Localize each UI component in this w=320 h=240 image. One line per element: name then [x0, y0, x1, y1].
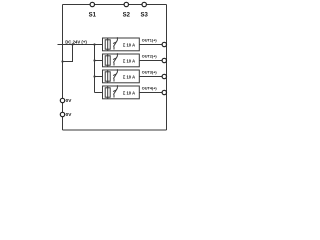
junction dot DC wire — [71, 43, 73, 45]
wire bottom — [63, 129, 167, 131]
svg-text:Σ 10 A: Σ 10 A — [123, 42, 135, 47]
terminal OUT4 — [162, 90, 166, 94]
terminal OUT3 — [162, 74, 166, 78]
svg-text:OUT1(+): OUT1(+) — [142, 38, 158, 42]
fuse F3 — [107, 70, 109, 83]
terminal 0V b — [60, 112, 64, 116]
wire vertical feed bus — [94, 45, 96, 93]
svg-text:S3: S3 — [141, 13, 149, 19]
channel block CH1 — [103, 37, 140, 51]
channel block CH2 — [103, 53, 140, 67]
junction dot bus top — [93, 43, 95, 45]
wire feed row2 — [95, 60, 103, 62]
svg-text:OUT4(+): OUT4(+) — [142, 86, 158, 90]
wire output row2 — [139, 60, 162, 62]
wire right rail — [166, 5, 168, 131]
svg-text:Σ 10 A: Σ 10 A — [123, 90, 135, 95]
wire top bus — [63, 4, 167, 6]
switch S CH2 — [116, 53, 118, 56]
svg-text:S1: S1 — [89, 13, 97, 19]
terminal 0V a — [60, 98, 64, 102]
junction dot bus row3 — [93, 75, 95, 77]
terminal S2 — [124, 2, 128, 6]
svg-text:S2: S2 — [123, 13, 131, 19]
svg-text:OUT2(+): OUT2(+) — [142, 54, 158, 58]
terminal OUT2 — [162, 58, 166, 62]
wire output row3 — [139, 76, 162, 78]
junction dot left rail second input — [61, 60, 63, 62]
switch S CH4 — [116, 85, 118, 88]
junction dot bus row2 — [93, 59, 95, 61]
switch S CH1 — [116, 37, 118, 40]
svg-text:0V: 0V — [66, 98, 73, 103]
terminal S1 — [90, 2, 94, 6]
fuse F4 — [107, 86, 109, 99]
wire feed row4 — [95, 92, 103, 94]
svg-text:OUT3(+): OUT3(+) — [142, 70, 158, 74]
fuse F2 — [107, 54, 109, 67]
wire left rail — [62, 5, 64, 131]
svg-text:Σ 10 A: Σ 10 A — [123, 74, 135, 79]
wire second input L — [63, 45, 73, 62]
wire feed row3 — [95, 76, 103, 78]
channel block CH3 — [103, 69, 140, 83]
wire output row1 — [139, 44, 162, 46]
svg-text:Σ 10 A: Σ 10 A — [123, 58, 135, 63]
wire DC24V feed row1 — [63, 44, 103, 46]
terminal S3 — [142, 2, 146, 6]
switch S CH3 — [116, 69, 118, 72]
channel block CH4 — [103, 85, 140, 99]
terminal OUT1 — [162, 42, 166, 46]
wire output row4 — [139, 92, 162, 94]
wire DC24V input stub — [58, 44, 63, 46]
svg-text:0V: 0V — [66, 112, 73, 117]
svg-text:DC 24V (+): DC 24V (+) — [65, 39, 87, 44]
fuse F1 — [107, 38, 109, 51]
